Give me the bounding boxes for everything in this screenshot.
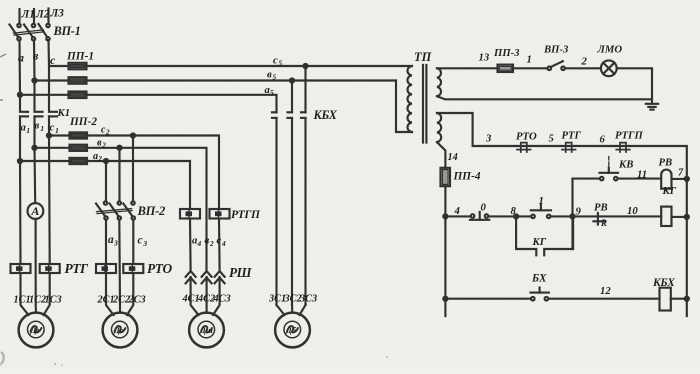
contact KBH phase 3 — [301, 112, 306, 305]
switch VP-1 — [10, 24, 50, 41]
wire BH line — [445, 298, 659, 300]
transformer primary winding — [407, 66, 412, 132]
thermal element RTGP-1 — [180, 209, 200, 219]
contact KG holding loop — [516, 216, 573, 255]
junction dot b2 — [32, 146, 36, 150]
wire phase a vertical — [20, 41, 36, 316]
contactor K1 contact phase a — [20, 112, 28, 117]
wire PP-2 row2 (b2) — [35, 148, 207, 271]
junction dot c2-VP2 — [131, 133, 135, 137]
wire KBH to right bus — [671, 298, 687, 300]
junction dot node8 — [514, 214, 518, 218]
wire VP-2 out 2 — [118, 220, 121, 313]
wire VP-2 out 3 — [127, 220, 133, 315]
wire branch c2 to VP-2 — [132, 136, 134, 202]
arrester RSh chevrons wire1 — [186, 271, 199, 315]
button KV — [600, 157, 619, 181]
wire control main line — [445, 215, 661, 217]
wire phase b vertical — [34, 41, 36, 313]
junction dot BH left — [443, 297, 447, 301]
junction dot b5 — [290, 78, 294, 82]
button 1 start — [531, 205, 551, 218]
thermal element RTG-2 — [40, 264, 60, 273]
motor M2 — [103, 313, 138, 348]
junction dot c5 — [303, 64, 307, 68]
fuse PP-1-2 — [69, 77, 87, 84]
fuse PP-2-2 — [70, 145, 88, 151]
wire node9 vertical — [571, 179, 573, 249]
wire motor3 phase a4 — [189, 219, 192, 271]
junction dot b row2 — [32, 78, 36, 82]
wire phase c vertical — [44, 40, 50, 315]
junction dot c2 — [47, 133, 51, 137]
wire branch a2 to VP-2 — [105, 161, 107, 201]
thermal element RTO-2 — [123, 264, 143, 273]
wire motor3 phase c4 — [218, 219, 221, 271]
wire branch b2 to VP-2 — [118, 148, 120, 202]
junction dot RV right — [685, 177, 689, 181]
wire VP-2 out 1 — [106, 220, 114, 315]
junction dot node4 — [443, 214, 447, 218]
junction dot b2-VP2 — [117, 146, 121, 150]
relay coil KBH — [660, 288, 671, 311]
button BH — [531, 288, 549, 301]
contact RTG — [562, 143, 576, 152]
motor M3 — [189, 313, 224, 348]
thermal element RTO-1 — [96, 264, 116, 273]
wire motor4 converge — [277, 305, 306, 315]
junction dot node9 — [570, 214, 574, 218]
transformer secondary 2 — [437, 113, 441, 142]
button 0 stop — [470, 212, 489, 220]
wire input stub L3 — [47, 9, 49, 24]
arrester RSh chevrons wire3 — [213, 271, 225, 315]
wire PP-1 row2 (b5 line) — [35, 81, 413, 133]
wire RV to right bus — [672, 178, 687, 180]
junction dot a2 — [18, 159, 22, 163]
fuse PP-2-3 — [70, 158, 88, 164]
contact KBH phase 1 — [272, 112, 277, 305]
wire PP-2 row3 (a2) — [20, 161, 190, 209]
wire secondary2 top lead — [437, 113, 687, 316]
wire secondary2 bottom lead — [437, 142, 445, 316]
lamp LMO — [601, 60, 617, 76]
fuse PP-1-1 — [69, 63, 87, 70]
relay coil KG — [661, 207, 671, 226]
wire KV branch line 11 — [573, 178, 662, 180]
switch VP-3 — [548, 61, 565, 70]
thermal element RTGP-2 — [210, 209, 230, 219]
junction dot a2-VP2 — [104, 159, 108, 163]
wire PP-1 row3 (a5 line) — [20, 95, 277, 113]
wire lamp line 13 — [437, 68, 652, 103]
ground — [646, 104, 658, 110]
wire input stub L1 — [18, 9, 20, 24]
contact KBH phase 2 — [288, 112, 293, 305]
junction dot KBH right — [685, 297, 689, 301]
contact RV time — [594, 213, 605, 225]
arrester RSh chevrons wire2 — [202, 271, 212, 313]
transformer secondary 1 — [437, 68, 441, 96]
wire PP-1 row1 (c5 line to transformer) — [49, 65, 412, 67]
ammeter A — [28, 203, 44, 219]
relay coil RV — [661, 170, 671, 189]
wire KG to right bus — [672, 216, 687, 218]
fuse PP-1-3 — [69, 92, 87, 99]
wire PP-2 row1 (c2) — [49, 136, 219, 210]
thermal element RTG-1 — [11, 264, 31, 273]
contact RTO — [517, 143, 531, 152]
wire branch c5 to KBH — [304, 66, 306, 112]
switch VP-2 — [96, 201, 135, 219]
wire branch b5 to KBH — [291, 81, 293, 113]
fuse PP-2-1 — [70, 132, 88, 138]
wire secondary1 return — [437, 96, 652, 99]
motor M1 — [19, 313, 54, 348]
motor M4 — [275, 313, 310, 348]
fuse PP-4 — [441, 168, 451, 186]
wire input stub L2 — [33, 9, 35, 24]
transformer core — [422, 65, 424, 143]
contactor K1 contact phase c — [49, 112, 57, 117]
fuse PP-3 — [498, 65, 514, 72]
contact RTGP — [616, 143, 630, 152]
contactor K1 contact phase b — [35, 112, 43, 117]
junction dot a row3 — [18, 93, 22, 97]
junction dot KG right — [685, 215, 689, 219]
